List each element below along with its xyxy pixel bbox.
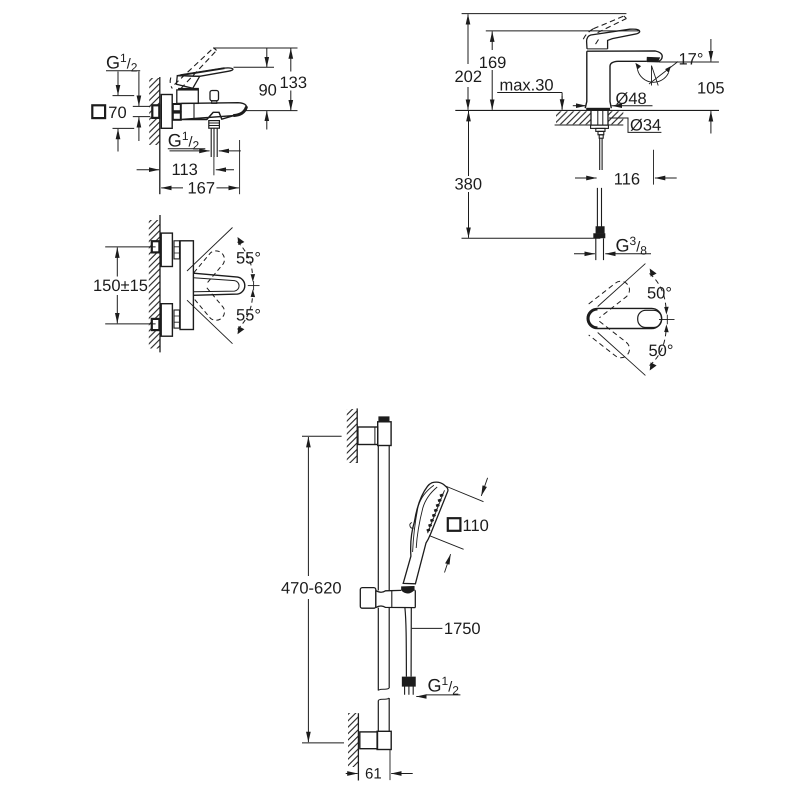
svg-text:90: 90	[259, 82, 277, 100]
svg-text:169: 169	[479, 54, 507, 72]
svg-text:50°: 50°	[649, 342, 674, 360]
svg-text:133: 133	[280, 74, 308, 92]
svg-text:max.30: max.30	[500, 77, 554, 95]
svg-text:G1/2: G1/2	[428, 674, 460, 698]
svg-text:105: 105	[697, 80, 725, 98]
svg-text:380: 380	[455, 176, 483, 194]
svg-text:50°: 50°	[647, 285, 672, 303]
svg-text:167: 167	[188, 180, 216, 198]
svg-text:470-620: 470-620	[281, 580, 342, 598]
svg-text:Ø34: Ø34	[630, 116, 661, 134]
svg-text:116: 116	[614, 171, 640, 189]
svg-text:113: 113	[172, 161, 198, 179]
svg-text:150±15: 150±15	[93, 277, 148, 295]
svg-text:61: 61	[365, 766, 382, 783]
svg-text:1750: 1750	[444, 620, 481, 638]
svg-text:55°: 55°	[236, 250, 261, 268]
svg-text:55°: 55°	[236, 307, 261, 325]
svg-text:17°: 17°	[679, 51, 704, 69]
svg-text:70: 70	[108, 104, 126, 122]
svg-text:110: 110	[463, 517, 489, 535]
svg-text:Ø48: Ø48	[616, 90, 647, 108]
